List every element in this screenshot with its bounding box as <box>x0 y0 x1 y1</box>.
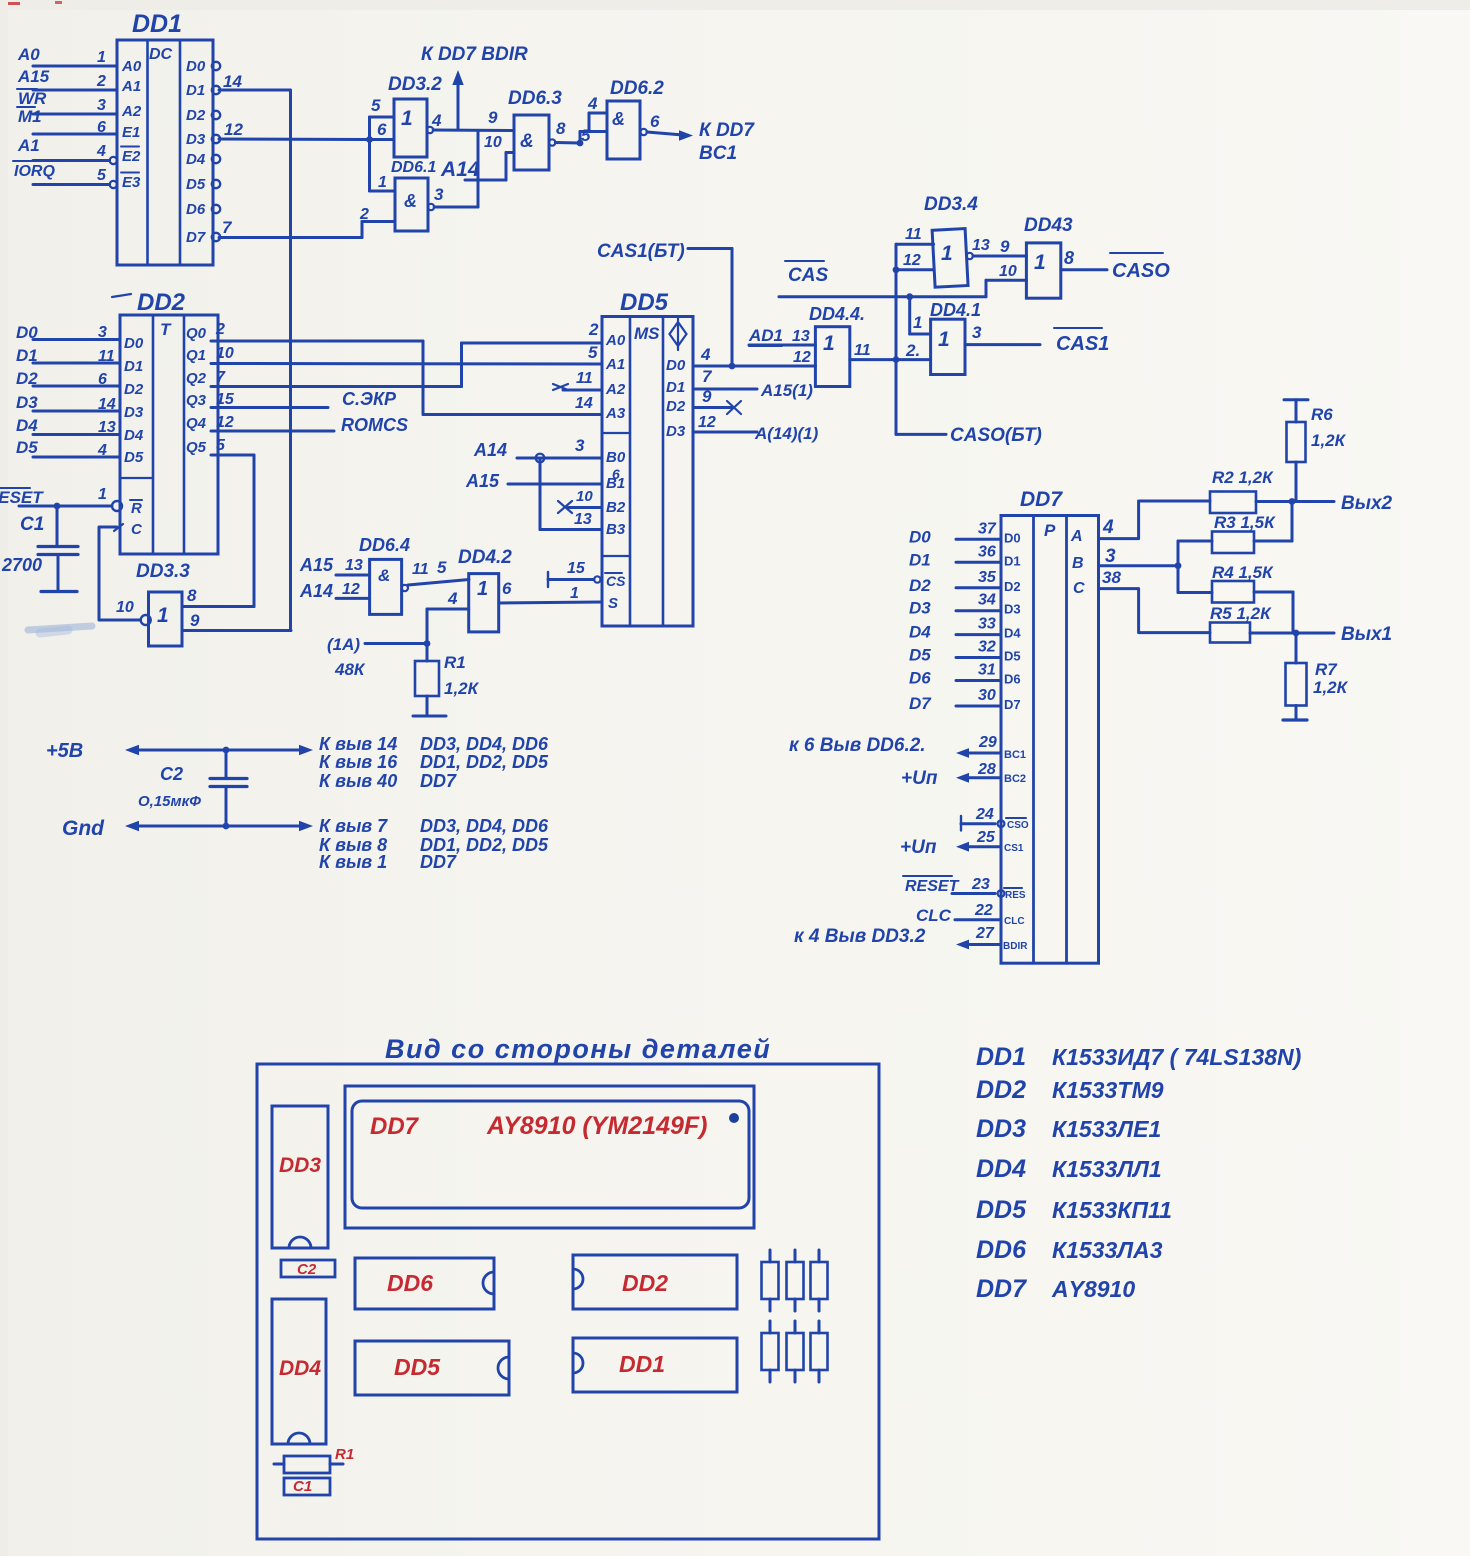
svg-text:38: 38 <box>1102 568 1121 587</box>
svg-text:D4: D4 <box>909 623 931 642</box>
svg-text:1: 1 <box>477 578 488 600</box>
svg-text:1: 1 <box>98 486 107 503</box>
svg-text:B0: B0 <box>606 449 626 466</box>
svg-text:К выв 16: К выв 16 <box>319 752 398 772</box>
svg-text:D5: D5 <box>186 176 206 193</box>
svg-text:DD6: DD6 <box>387 1270 433 1296</box>
svg-text:BC1: BC1 <box>699 143 737 164</box>
svg-text:&: & <box>378 566 390 585</box>
svg-text:D0: D0 <box>1004 530 1021 545</box>
svg-text:4: 4 <box>447 589 458 608</box>
svg-text:E3: E3 <box>122 174 141 191</box>
svg-text:D7: D7 <box>909 694 932 713</box>
svg-text:12: 12 <box>793 349 811 366</box>
svg-text:DD4.4.: DD4.4. <box>809 304 865 324</box>
svg-text:12: 12 <box>698 414 716 431</box>
svg-text:DD7: DD7 <box>370 1113 420 1140</box>
svg-text:10: 10 <box>116 599 134 616</box>
svg-text:D0: D0 <box>666 357 686 374</box>
svg-text:D1: D1 <box>1004 553 1021 568</box>
svg-text:1,2К: 1,2К <box>1311 431 1347 450</box>
svg-text:C2: C2 <box>160 764 183 784</box>
svg-text:A0: A0 <box>121 58 142 75</box>
svg-text:D4: D4 <box>16 416 38 435</box>
svg-text:10: 10 <box>576 488 593 505</box>
svg-text:AD1: AD1 <box>748 326 783 345</box>
svg-text:7: 7 <box>702 367 713 386</box>
svg-text:R: R <box>131 500 142 517</box>
svg-text:11: 11 <box>854 342 871 359</box>
svg-text:к 6 Выв DD6.2.: к 6 Выв DD6.2. <box>789 735 926 756</box>
svg-text:D5: D5 <box>124 449 144 466</box>
svg-text:A2: A2 <box>605 381 626 398</box>
svg-text:6: 6 <box>650 112 660 131</box>
svg-text:13: 13 <box>98 419 116 436</box>
svg-text:&: & <box>612 109 625 129</box>
svg-text:DD4: DD4 <box>976 1155 1026 1183</box>
svg-text:D0: D0 <box>16 323 38 342</box>
svg-text:10: 10 <box>999 263 1017 280</box>
svg-text:6: 6 <box>612 466 620 482</box>
svg-text:4: 4 <box>700 345 711 364</box>
svg-text:К1533ЛЛ1: К1533ЛЛ1 <box>1052 1156 1162 1182</box>
svg-text:BDIR: BDIR <box>1003 941 1028 952</box>
svg-text:9: 9 <box>1000 237 1010 256</box>
svg-text:29: 29 <box>978 734 997 751</box>
svg-text:R4 1,5К: R4 1,5К <box>1212 563 1274 582</box>
svg-text:3: 3 <box>97 97 106 114</box>
svg-text:1: 1 <box>97 49 106 66</box>
svg-text:RES: RES <box>1005 890 1026 901</box>
svg-text:+Uп: +Uп <box>901 768 938 789</box>
svg-text:DD1: DD1 <box>619 1351 665 1377</box>
svg-text:D5: D5 <box>1004 649 1021 664</box>
svg-text:Gnd: Gnd <box>62 817 105 840</box>
svg-text:B: B <box>1072 555 1084 572</box>
svg-text:D0: D0 <box>909 527 931 546</box>
svg-text:D4: D4 <box>124 427 144 444</box>
svg-text:D6: D6 <box>909 669 931 688</box>
svg-text:7: 7 <box>216 369 226 386</box>
svg-text:D3: D3 <box>186 131 206 148</box>
svg-text:DD3.4: DD3.4 <box>924 194 978 215</box>
svg-text:Вых1: Вых1 <box>1341 624 1392 645</box>
svg-text:D3: D3 <box>1004 602 1021 617</box>
svg-text:R7: R7 <box>1315 660 1338 679</box>
svg-text:D2: D2 <box>124 381 144 398</box>
svg-text:37: 37 <box>978 520 997 537</box>
svg-text:IORQ: IORQ <box>14 163 55 180</box>
svg-text:А(14)(1): А(14)(1) <box>754 424 819 443</box>
svg-text:Q3: Q3 <box>186 392 207 409</box>
svg-text:8: 8 <box>556 119 566 138</box>
svg-text:К выв 7: К выв 7 <box>319 816 388 836</box>
svg-text:D3: D3 <box>909 599 931 618</box>
svg-text:DD1, DD2, DD5: DD1, DD2, DD5 <box>420 752 549 772</box>
svg-text:К1533КП11: К1533КП11 <box>1052 1197 1172 1223</box>
svg-text:4: 4 <box>97 442 107 459</box>
svg-text:B2: B2 <box>606 499 626 516</box>
svg-text:D1: D1 <box>666 379 685 396</box>
svg-text:A14: A14 <box>440 158 480 181</box>
svg-text:CS1: CS1 <box>1004 843 1024 854</box>
svg-text:DD7: DD7 <box>420 852 457 872</box>
svg-text:2: 2 <box>359 206 369 223</box>
svg-text:+5В: +5В <box>46 740 83 762</box>
svg-text:RESET: RESET <box>905 878 960 895</box>
svg-text:11: 11 <box>905 226 922 243</box>
svg-text:D2: D2 <box>186 107 206 124</box>
svg-text:27: 27 <box>975 925 995 942</box>
svg-text:DD3: DD3 <box>976 1115 1026 1143</box>
svg-text:DD3.3: DD3.3 <box>136 561 190 582</box>
svg-text:5: 5 <box>437 558 447 577</box>
svg-text:A0: A0 <box>605 332 626 349</box>
svg-text:DD1: DD1 <box>976 1043 1026 1071</box>
svg-text:3: 3 <box>575 436 585 455</box>
svg-text:(1А): (1А) <box>327 635 360 654</box>
svg-text:MS: MS <box>634 324 660 343</box>
svg-text:DD6.4: DD6.4 <box>359 535 410 555</box>
svg-text:32: 32 <box>978 639 996 656</box>
svg-text:13: 13 <box>345 557 363 574</box>
svg-text:D3: D3 <box>16 393 38 412</box>
svg-text:DD7: DD7 <box>420 771 457 791</box>
svg-text:CS: CS <box>606 573 626 589</box>
svg-text:23: 23 <box>971 876 990 893</box>
svg-text:DD5: DD5 <box>620 289 669 316</box>
svg-text:CSO: CSO <box>1007 820 1029 831</box>
svg-text:CAS1(БТ): CAS1(БТ) <box>597 241 685 262</box>
svg-text:A15: A15 <box>465 471 500 491</box>
svg-text:C: C <box>1073 580 1085 597</box>
svg-text:WR: WR <box>18 89 47 108</box>
svg-text:CAS: CAS <box>788 265 828 286</box>
svg-text:C: C <box>131 521 143 538</box>
svg-text:8: 8 <box>1064 248 1074 268</box>
svg-text:1: 1 <box>938 328 950 351</box>
svg-text:D1: D1 <box>16 346 38 365</box>
svg-text:A15: A15 <box>299 555 334 575</box>
svg-text:1: 1 <box>823 332 835 355</box>
svg-text:A14: A14 <box>299 581 333 601</box>
svg-text:DD43: DD43 <box>1024 215 1073 236</box>
svg-text:5: 5 <box>371 96 381 115</box>
svg-text:DD4.1: DD4.1 <box>930 300 981 320</box>
svg-text:15: 15 <box>216 391 235 408</box>
svg-text:DD7: DD7 <box>1020 488 1063 511</box>
svg-text:К1533ЛА3: К1533ЛА3 <box>1052 1237 1163 1263</box>
svg-text:5: 5 <box>581 126 591 145</box>
svg-text:5: 5 <box>97 167 107 184</box>
svg-text:D5: D5 <box>909 646 931 665</box>
svg-text:1,2К: 1,2К <box>444 679 480 698</box>
svg-text:14: 14 <box>575 395 593 412</box>
svg-text:BC1: BC1 <box>1004 749 1026 761</box>
svg-text:3: 3 <box>1105 546 1116 567</box>
svg-text:D1: D1 <box>124 358 143 375</box>
svg-text:4: 4 <box>587 94 598 113</box>
svg-text:К1533ТМ9: К1533ТМ9 <box>1052 1077 1164 1103</box>
svg-text:P: P <box>1044 521 1056 540</box>
svg-text:24: 24 <box>975 806 994 823</box>
svg-text:RESET: RESET <box>0 488 44 507</box>
svg-text:6: 6 <box>377 120 387 139</box>
svg-text:A15(1): A15(1) <box>760 381 813 400</box>
svg-text:12: 12 <box>224 120 243 139</box>
svg-text:A14: A14 <box>473 440 507 460</box>
svg-text:2.: 2. <box>905 341 920 360</box>
svg-text:BC2: BC2 <box>1004 773 1026 785</box>
svg-text:3: 3 <box>972 323 982 342</box>
svg-text:1,2К: 1,2К <box>1313 678 1349 697</box>
svg-text:Q0: Q0 <box>186 325 207 342</box>
svg-text:К выв 40: К выв 40 <box>319 771 397 791</box>
svg-text:D1: D1 <box>909 550 931 569</box>
svg-text:14: 14 <box>223 72 242 91</box>
svg-text:DD4: DD4 <box>279 1357 321 1380</box>
svg-text:DD3: DD3 <box>279 1154 321 1177</box>
svg-text:31: 31 <box>978 662 996 679</box>
svg-text:A: A <box>1070 528 1083 545</box>
svg-text:35: 35 <box>978 569 997 586</box>
svg-text:22: 22 <box>974 902 993 919</box>
svg-text:К выв 14: К выв 14 <box>319 734 397 754</box>
svg-text:D1: D1 <box>186 82 205 99</box>
svg-text:13: 13 <box>574 511 592 528</box>
svg-text:D6: D6 <box>1004 672 1021 687</box>
svg-text:DD1: DD1 <box>132 10 182 38</box>
svg-text:1: 1 <box>913 313 922 332</box>
svg-text:48К: 48К <box>334 660 366 679</box>
svg-text:A0: A0 <box>17 45 40 64</box>
svg-text:7: 7 <box>222 218 233 237</box>
svg-text:+Uп: +Uп <box>900 837 937 858</box>
svg-text:AY8910 (YM2149F): AY8910 (YM2149F) <box>486 1112 707 1140</box>
svg-text:D4: D4 <box>186 151 206 168</box>
svg-text:R1: R1 <box>335 1446 354 1463</box>
svg-text:D2: D2 <box>16 369 38 388</box>
svg-text:D0: D0 <box>186 58 206 75</box>
svg-text:Q1: Q1 <box>186 347 206 364</box>
svg-text:A1: A1 <box>605 356 625 373</box>
svg-text:CASO(БТ): CASO(БТ) <box>950 425 1042 446</box>
svg-text:С.ЭКР: С.ЭКР <box>342 389 397 409</box>
svg-text:12: 12 <box>216 414 234 431</box>
svg-text:R5 1,2К: R5 1,2К <box>1210 604 1272 623</box>
svg-text:CASO: CASO <box>1112 260 1170 282</box>
svg-text:T: T <box>160 320 172 339</box>
svg-text:34: 34 <box>978 592 996 609</box>
svg-text:3: 3 <box>434 185 444 204</box>
svg-text:D0: D0 <box>124 335 144 352</box>
svg-text:1: 1 <box>401 107 413 130</box>
svg-text:A1: A1 <box>121 78 141 95</box>
svg-text:12: 12 <box>903 252 921 269</box>
svg-text:&: & <box>404 191 417 211</box>
svg-text:1: 1 <box>1034 251 1046 274</box>
svg-text:2: 2 <box>96 73 106 90</box>
svg-text:DD3, DD4, DD6: DD3, DD4, DD6 <box>420 734 549 754</box>
svg-text:D3: D3 <box>666 423 686 440</box>
svg-text:1: 1 <box>941 242 953 265</box>
svg-text:6: 6 <box>97 119 106 136</box>
svg-text:C1: C1 <box>293 1478 312 1495</box>
svg-text:36: 36 <box>978 543 996 560</box>
svg-text:4: 4 <box>1102 517 1114 538</box>
svg-text:5: 5 <box>216 437 226 454</box>
svg-text:13: 13 <box>792 328 810 345</box>
svg-text:E2: E2 <box>122 148 141 165</box>
svg-text:15: 15 <box>567 560 586 577</box>
svg-text:К выв 1: К выв 1 <box>319 852 387 872</box>
svg-text:CLC: CLC <box>1004 916 1025 927</box>
svg-text:ROMCS: ROMCS <box>341 415 408 435</box>
svg-text:C1: C1 <box>20 514 44 535</box>
svg-text:10: 10 <box>216 345 234 362</box>
svg-text:DD3.2: DD3.2 <box>388 74 442 95</box>
svg-text:28: 28 <box>977 761 996 778</box>
svg-text:9: 9 <box>702 387 712 406</box>
svg-text:2: 2 <box>215 321 225 338</box>
svg-text:R6: R6 <box>1311 405 1333 424</box>
svg-text:12: 12 <box>342 581 360 598</box>
svg-text:DD5: DD5 <box>976 1196 1027 1224</box>
svg-text:A15: A15 <box>17 67 50 86</box>
svg-text:4: 4 <box>431 111 442 130</box>
svg-text:13: 13 <box>972 237 990 254</box>
svg-text:К DD7 BDIR: К DD7 BDIR <box>421 44 528 65</box>
svg-text:2700: 2700 <box>1 555 42 575</box>
svg-text:M1: M1 <box>18 107 42 126</box>
svg-text:6: 6 <box>502 579 512 598</box>
svg-text:D6: D6 <box>186 201 206 218</box>
svg-text:D3: D3 <box>124 404 144 421</box>
svg-text:3: 3 <box>98 324 107 341</box>
svg-text:DC: DC <box>149 46 173 63</box>
svg-text:9: 9 <box>488 108 498 127</box>
svg-text:Q5: Q5 <box>186 439 207 456</box>
svg-text:A3: A3 <box>605 405 626 422</box>
svg-text:1: 1 <box>570 585 579 602</box>
svg-text:&: & <box>520 131 534 152</box>
svg-text:E1: E1 <box>122 124 140 141</box>
svg-text:33: 33 <box>978 616 996 633</box>
svg-text:D2: D2 <box>1004 579 1021 594</box>
svg-text:Вых2: Вых2 <box>1341 493 1393 514</box>
svg-text:11: 11 <box>98 348 115 365</box>
svg-text:10: 10 <box>484 134 502 151</box>
svg-text:О,15мкФ: О,15мкФ <box>138 793 201 810</box>
svg-text:D7: D7 <box>1004 697 1021 712</box>
svg-text:DD6.1: DD6.1 <box>391 159 436 176</box>
svg-text:R3 1,5К: R3 1,5К <box>1214 513 1276 532</box>
svg-text:D5: D5 <box>16 438 38 457</box>
svg-text:DD4.2: DD4.2 <box>458 547 512 568</box>
svg-text:D7: D7 <box>186 229 206 246</box>
svg-text:К1533ИД7 ( 74LS138N): К1533ИД7 ( 74LS138N) <box>1052 1044 1301 1070</box>
svg-text:Q2: Q2 <box>186 370 207 387</box>
svg-text:К DD7: К DD7 <box>699 120 755 141</box>
svg-text:D4: D4 <box>1004 626 1021 641</box>
svg-text:D2: D2 <box>666 398 686 415</box>
svg-text:C2: C2 <box>297 1261 317 1278</box>
svg-text:R1: R1 <box>444 653 466 672</box>
svg-text:CAS1: CAS1 <box>1056 333 1109 355</box>
svg-text:8: 8 <box>187 586 197 605</box>
svg-text:6: 6 <box>98 371 107 388</box>
svg-text:11: 11 <box>412 561 429 578</box>
svg-text:К1533ЛЕ1: К1533ЛЕ1 <box>1052 1116 1161 1142</box>
svg-text:DD6.3: DD6.3 <box>508 88 562 109</box>
svg-text:DD2: DD2 <box>137 289 186 316</box>
svg-text:DD6.2: DD6.2 <box>610 78 664 99</box>
svg-text:DD2: DD2 <box>622 1270 668 1296</box>
svg-text:A2: A2 <box>121 103 142 120</box>
svg-text:S: S <box>608 595 618 612</box>
svg-text:к 4 Выв DD3.2: к 4 Выв DD3.2 <box>794 926 926 947</box>
svg-text:B3: B3 <box>606 521 626 538</box>
svg-text:DD5: DD5 <box>394 1354 441 1380</box>
svg-text:R2 1,2К: R2 1,2К <box>1212 468 1274 487</box>
svg-text:DD7: DD7 <box>976 1275 1027 1303</box>
svg-text:DD2: DD2 <box>976 1076 1026 1104</box>
svg-text:DD3, DD4, DD6: DD3, DD4, DD6 <box>420 816 549 836</box>
svg-text:30: 30 <box>978 687 996 704</box>
svg-text:A1: A1 <box>17 136 40 155</box>
svg-text:14: 14 <box>98 396 116 413</box>
svg-text:9: 9 <box>190 611 200 630</box>
svg-text:25: 25 <box>976 829 996 846</box>
svg-text:2: 2 <box>588 320 599 339</box>
svg-text:4: 4 <box>96 143 106 160</box>
svg-text:Вид со стороны деталей: Вид со стороны деталей <box>385 1034 771 1064</box>
svg-text:5: 5 <box>588 343 598 362</box>
svg-text:DD6: DD6 <box>976 1236 1027 1264</box>
svg-text:Q4: Q4 <box>186 415 207 432</box>
svg-text:1: 1 <box>378 174 387 191</box>
svg-text:CLC: CLC <box>916 906 952 925</box>
svg-text:11: 11 <box>576 370 593 387</box>
svg-text:1: 1 <box>157 604 169 627</box>
svg-text:АY8910: АY8910 <box>1051 1276 1135 1302</box>
svg-text:D2: D2 <box>909 576 931 595</box>
